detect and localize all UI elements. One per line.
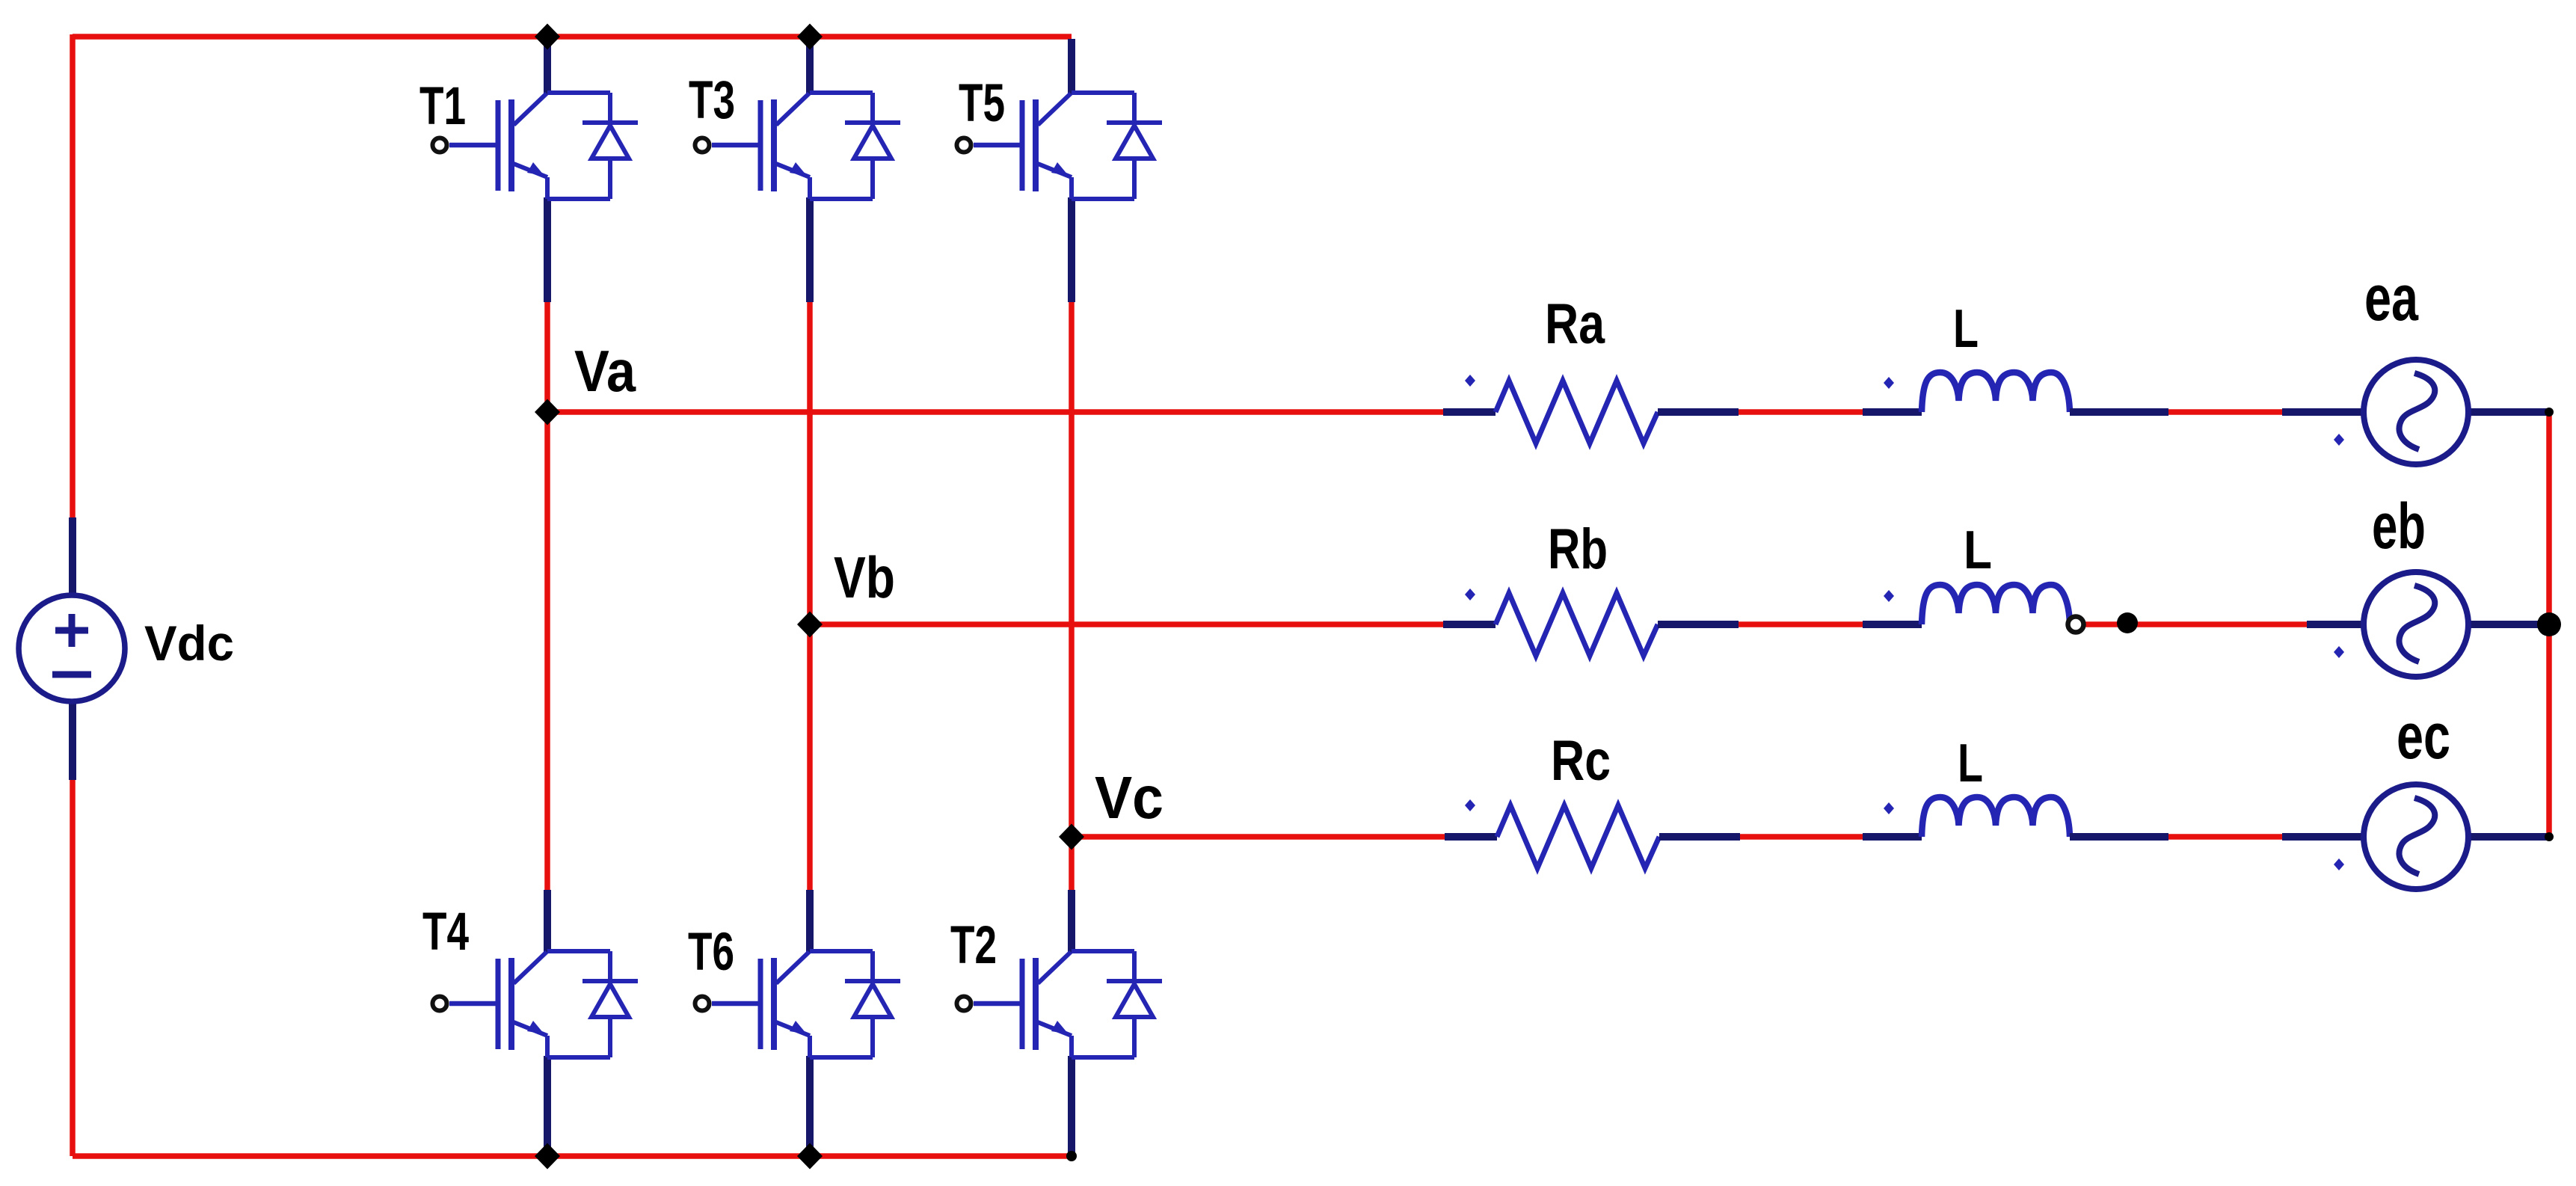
wire leg B collector T3 xyxy=(806,37,814,94)
resistor Ra xyxy=(1443,381,1739,443)
svg-text:ec: ec xyxy=(2397,701,2450,772)
node top bus / leg A junction xyxy=(535,24,560,50)
transistor T5 xyxy=(957,93,1163,199)
node row B mid junction xyxy=(2117,612,2138,633)
wire row A lead out of ea xyxy=(2468,408,2549,416)
svg-text:Vdc: Vdc xyxy=(144,615,234,671)
wire row C lead out of ec xyxy=(2468,833,2549,841)
wire bottom DC bus (red) xyxy=(73,1153,1072,1159)
terminal marker L row B xyxy=(1884,590,1894,602)
svg-text:T4: T4 xyxy=(422,903,469,962)
terminal marker Rb xyxy=(1465,589,1475,600)
node bottom bus right corner xyxy=(1066,1151,1077,1161)
source ec xyxy=(2364,784,2468,889)
svg-text:T6: T6 xyxy=(688,923,734,982)
node Vb xyxy=(797,612,823,638)
svg-text:Rc: Rc xyxy=(1551,729,1611,793)
wire left vertical from top bus to Vdc xyxy=(70,34,76,520)
wire right vertical neutral bus xyxy=(2546,412,2552,837)
inductor L (row C) xyxy=(1863,797,2168,837)
terminal marker Ra xyxy=(1465,375,1475,387)
wire leg A emitter T1 xyxy=(544,197,551,302)
source ea xyxy=(2364,360,2468,464)
terminal marker eb xyxy=(2334,646,2344,658)
wire row B: L terminal to eb xyxy=(2084,621,2307,627)
wire top DC bus (red) xyxy=(73,34,1072,40)
wire leg B mid (Vb) xyxy=(807,300,813,892)
node bottom bus / leg B junction xyxy=(797,1143,823,1170)
svg-text:Vb: Vb xyxy=(834,544,895,610)
svg-text:Vc: Vc xyxy=(1095,764,1163,831)
svg-text:T5: T5 xyxy=(959,74,1005,133)
node top bus / leg B junction xyxy=(797,24,823,50)
terminal marker Rc xyxy=(1465,799,1475,811)
svg-text:T2: T2 xyxy=(950,916,997,975)
wire leg A collector T1 xyxy=(544,37,551,94)
wire row C: L to ec xyxy=(2168,834,2282,840)
wire leg A collector T4 xyxy=(544,890,551,953)
wire row B: Vb to Rb xyxy=(810,621,1443,627)
source eb xyxy=(2364,572,2468,677)
wire leg C mid (Vc) xyxy=(1069,300,1075,892)
wire leg B emitter T6 xyxy=(806,1056,814,1156)
inductor L (row A) xyxy=(1863,372,2168,412)
transistor T6 xyxy=(695,951,901,1057)
wire row B: Rb to L xyxy=(1739,621,1863,627)
wire row C lead into ec xyxy=(2282,833,2364,841)
node bottom bus / leg A junction xyxy=(535,1143,560,1170)
svg-text:L: L xyxy=(1953,299,1979,359)
resistor Rb xyxy=(1443,593,1739,656)
svg-text:T3: T3 xyxy=(689,71,735,130)
svg-text:ea: ea xyxy=(2364,262,2419,334)
svg-text:Ra: Ra xyxy=(1545,292,1605,356)
wire leg C collector T5 xyxy=(1068,39,1075,94)
terminal marker ec xyxy=(2334,858,2344,870)
inductor L (row B) xyxy=(1863,585,2070,624)
wire row A lead into ea xyxy=(2282,408,2364,416)
svg-text:Rb: Rb xyxy=(1548,517,1608,581)
wire left blue above Vdc xyxy=(69,517,76,596)
transistor T3 xyxy=(695,93,901,199)
wire leg C collector T2 xyxy=(1068,890,1075,953)
transistor T2 xyxy=(957,951,1163,1057)
wire leg A mid (Va) xyxy=(544,300,550,892)
wire row B lead into eb xyxy=(2307,621,2364,628)
wire row A: Va to Ra xyxy=(547,409,1443,415)
wire leg C emitter T5 xyxy=(1068,197,1075,302)
transistor T1 xyxy=(433,93,639,199)
wire leg B emitter T3 xyxy=(806,197,814,302)
svg-text:L: L xyxy=(1958,734,1983,793)
wire row C: Vc to Rc xyxy=(1072,834,1445,840)
svg-text:Va: Va xyxy=(574,338,636,404)
node ea right corner xyxy=(2545,408,2554,417)
node Vc xyxy=(1059,824,1084,850)
svg-text:eb: eb xyxy=(2372,491,2426,562)
wire row C: Rc to L xyxy=(1739,834,1863,840)
transistor T4 xyxy=(433,951,639,1057)
node eb right junction xyxy=(2537,612,2561,636)
terminal marker L row C xyxy=(1884,802,1894,814)
terminal marker ea xyxy=(2334,434,2344,446)
svg-text:L: L xyxy=(1964,520,1992,580)
wire left vertical from Vdc to bottom bus xyxy=(70,778,76,1156)
wire row A: L to ea xyxy=(2168,409,2282,415)
node Va xyxy=(535,399,560,425)
wire row A: Ra to L xyxy=(1739,409,1863,415)
wire leg A emitter T4 xyxy=(544,1056,551,1156)
resistor Rc xyxy=(1445,805,1740,868)
wire left blue below Vdc xyxy=(69,701,76,780)
terminal marker L row A xyxy=(1884,377,1894,389)
wire leg B collector T6 xyxy=(806,890,814,953)
node ec right corner xyxy=(2545,832,2554,841)
pin open terminal row B inductor xyxy=(2068,617,2084,633)
source Vdc xyxy=(19,595,125,701)
wire leg C emitter T2 xyxy=(1068,1056,1075,1154)
wire row B lead out of eb xyxy=(2468,621,2549,628)
svg-text:T1: T1 xyxy=(419,77,466,136)
